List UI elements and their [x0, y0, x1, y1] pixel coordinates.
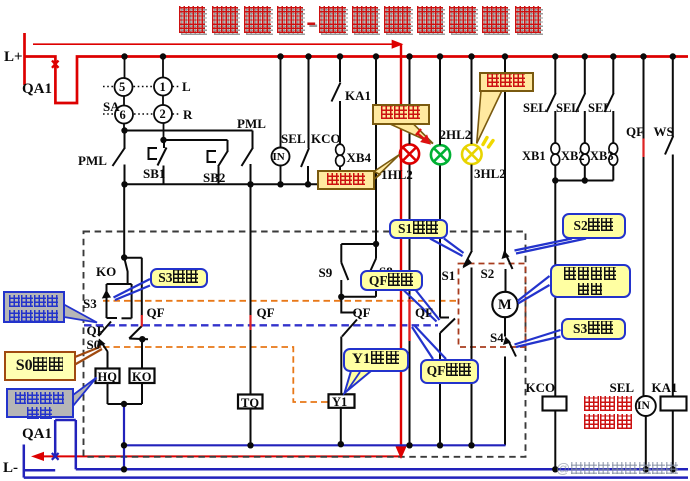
coil Y1 — [329, 394, 355, 408]
callout pointer S3-closed (blue lines) — [114, 279, 151, 300]
coil TQ (tripping coil) — [238, 395, 263, 409]
orange dashed net line 1 — [103, 300, 459, 302]
label PML right — [237, 117, 266, 130]
wire blue mid negative bus — [124, 444, 506, 446]
callout QF open — [360, 270, 424, 292]
TITLE — [176, 6, 544, 37]
red arrow to green lamp — [416, 129, 429, 143]
label S2 — [481, 267, 495, 280]
callout aux contacts change — [3, 291, 65, 323]
label L- — [3, 461, 18, 476]
wire coils to junction — [108, 383, 143, 404]
label S1 — [442, 269, 456, 282]
L+ red rail with QA1 break — [25, 33, 689, 103]
pin 2 — [160, 108, 166, 121]
pin 1 — [160, 81, 166, 94]
label IN right — [637, 401, 650, 413]
brown dashed sub-box (energy-storage section) — [459, 264, 526, 348]
label S8 — [379, 265, 393, 278]
wire lamp 3HL2 column with contact S1 (closed) — [464, 58, 473, 445]
label S9 — [319, 266, 333, 279]
coil text Y1 — [332, 396, 347, 409]
callout S1 closed — [389, 219, 449, 240]
motor M — [492, 292, 517, 317]
label SEL left — [281, 132, 306, 145]
label KA1 top — [345, 89, 371, 102]
label KA1 bottom — [652, 381, 678, 394]
lamp supervision relay IN (left) — [272, 58, 290, 184]
label QF anti-pump — [147, 306, 165, 319]
SA switch circles 5/1/6/2 with dotted couplers — [115, 57, 173, 140]
coil KCO — [543, 397, 567, 411]
label 2HL2 — [440, 128, 472, 141]
callout pointer yellow-lamp tail — [477, 91, 502, 144]
motor text M — [498, 298, 512, 313]
label QF right — [626, 125, 644, 138]
label XB4 — [347, 151, 372, 164]
pushbutton SB2 — [208, 140, 229, 184]
junction dots top bus — [121, 53, 676, 59]
wire lamp 2HL2 column with open contact QF — [440, 58, 455, 445]
label KO contact — [96, 265, 116, 278]
callout S3 closed — [150, 268, 208, 289]
label QF Y1 chain — [353, 306, 371, 319]
callout pointer S0 (brown lines) — [75, 347, 102, 365]
anti-pump branch with contact QF (closed, red) — [124, 258, 148, 369]
label L — [182, 80, 191, 93]
label SEL bottom — [610, 381, 635, 394]
wire node feeder (behind lamp callout boxes) — [375, 58, 377, 244]
orange dashed net line 2 (to Y1) — [103, 347, 329, 402]
label QA1 top — [22, 82, 52, 97]
callout pointer motor-stop (blue lines) — [518, 276, 550, 304]
callout QF closed — [420, 359, 479, 384]
label S4 — [490, 331, 504, 344]
contact KA1 with plug XB4 — [332, 58, 345, 172]
label S3 — [83, 297, 97, 310]
blue dashed net line — [84, 324, 438, 326]
contact S0 (closed) — [97, 339, 106, 348]
callout S3 open — [561, 318, 627, 340]
lamp 3HL2 yellow — [462, 145, 482, 165]
label KCO bottom — [526, 381, 556, 394]
label PML left — [78, 154, 107, 167]
callout pointer QF-closed (blue lines) — [412, 326, 446, 360]
callout pointer closing-coil gray (triangle) — [73, 378, 97, 407]
label SB2 — [203, 171, 225, 184]
callout closing coil de-energized — [6, 388, 74, 418]
label 1HL2 — [381, 168, 413, 181]
callout Y1 energized — [343, 348, 410, 372]
contact SEL column XB3 — [605, 58, 618, 181]
callout pointer QF-open (blue lines) — [404, 291, 440, 322]
label S0 — [87, 338, 101, 351]
label QF TQ column — [257, 306, 275, 319]
label QF chain — [87, 324, 105, 337]
wire red current-return path (bottom, under dashed box) — [34, 453, 401, 459]
pushbutton SB1 — [149, 140, 167, 184]
label WS — [654, 125, 674, 138]
label QF lamps — [415, 306, 433, 319]
wire QF lamp column (right) — [644, 58, 646, 469]
callout S0 closed — [4, 351, 76, 381]
coil text TQ — [241, 397, 259, 410]
wire blue drop to negative rail — [123, 404, 125, 470]
auxiliary switch S3 assembly — [107, 284, 132, 318]
wire lamp 1HL2 column — [409, 58, 411, 445]
red note close-position-lamp-on — [583, 396, 632, 432]
contact KCO — [301, 58, 309, 184]
contact PML (left) — [113, 131, 126, 185]
wire XB collector — [555, 180, 613, 182]
contact QF (closed, red) on TQ column — [250, 184, 252, 394]
L- rail with QA1 break (blue) — [24, 420, 688, 478]
callout motor stops — [550, 264, 631, 298]
lamp supervision relay IN (right) — [636, 396, 656, 416]
callout yellow-lamp-on — [479, 72, 534, 92]
contact QF (closed, red) on 1HL2 column — [408, 299, 410, 341]
label QA1 bottom — [22, 427, 52, 442]
callout green-lamp-off — [372, 104, 430, 125]
coil text KO — [132, 371, 151, 384]
wire left feeder horizontals — [125, 131, 253, 141]
wire KCO coil column — [554, 181, 556, 397]
lamp 2HL2 green — [431, 145, 450, 164]
label SEL x3 — [523, 102, 547, 115]
contact KO (upper, closing chain) — [124, 258, 127, 284]
blue X break mark QA1 (bottom) — [52, 453, 59, 460]
contact SEL column XB1 — [547, 58, 560, 181]
label SB1 — [143, 167, 165, 180]
motor branch column — [505, 58, 516, 445]
contact S3 moving arm arrow — [102, 290, 111, 299]
callout pointer S1 (blue lines) — [430, 239, 464, 257]
callout pointer S3-open (blue lines) — [515, 330, 561, 347]
label IN left — [273, 152, 285, 163]
wire thin red current path (top) — [33, 41, 401, 48]
contact S4 arrow (opened) — [503, 337, 511, 346]
watermark — [556, 460, 679, 476]
callout red-lamp-on — [317, 170, 375, 190]
coil KO (anti-pump relay) — [130, 369, 155, 384]
contact QF closed (red segment) — [642, 139, 644, 158]
junction dots blue buses — [121, 441, 676, 472]
lamp 1HL2 red — [400, 144, 419, 163]
pin 5 — [119, 81, 125, 94]
contact QF (Y1 chain, open) — [341, 297, 357, 395]
coil KA1 — [661, 397, 687, 411]
wire red current path (vertical drop) — [397, 44, 405, 456]
contact SEL column XB2 — [576, 58, 589, 181]
junction dots closing chain — [121, 254, 146, 407]
label L+ — [4, 50, 23, 65]
label KCO top — [311, 132, 341, 145]
red X break mark QA1 (top) — [52, 61, 59, 68]
junction dots left feeders — [121, 127, 311, 187]
callout pointer S2 (blue lines) — [515, 239, 587, 254]
callout pointer green-lamp tail — [389, 124, 433, 144]
pin 6 — [120, 109, 126, 122]
wire mid collector bus — [125, 183, 377, 185]
wire closing-circuit drop — [123, 184, 125, 257]
callout pointer red-lamp (V tail) — [374, 155, 400, 180]
node S9/S8 parallel head — [341, 244, 376, 297]
junction dots XB collector — [552, 177, 588, 183]
coil text HQ — [98, 371, 117, 384]
label XB1 XB2 XB3 — [522, 150, 546, 163]
junction dots Y1 chain — [338, 241, 379, 300]
callout pointer Y1 tail — [345, 371, 372, 393]
contact PML (right) — [242, 131, 254, 185]
contact WS with coil KA1 — [665, 58, 673, 397]
label 3HL2 — [474, 167, 506, 180]
contact QF (closing chain, open) — [99, 322, 112, 337]
label SA — [103, 100, 120, 113]
coil HQ (closing coil) — [96, 369, 120, 384]
lamp 3HL2 lit rays — [483, 138, 493, 148]
callout pointer aux-switch gray (triangle) — [64, 305, 97, 323]
contact S2 arrow (opened) — [502, 251, 510, 260]
big dashed enclosure box — [84, 232, 526, 457]
callout S2 open — [562, 213, 626, 240]
label R — [183, 108, 192, 121]
